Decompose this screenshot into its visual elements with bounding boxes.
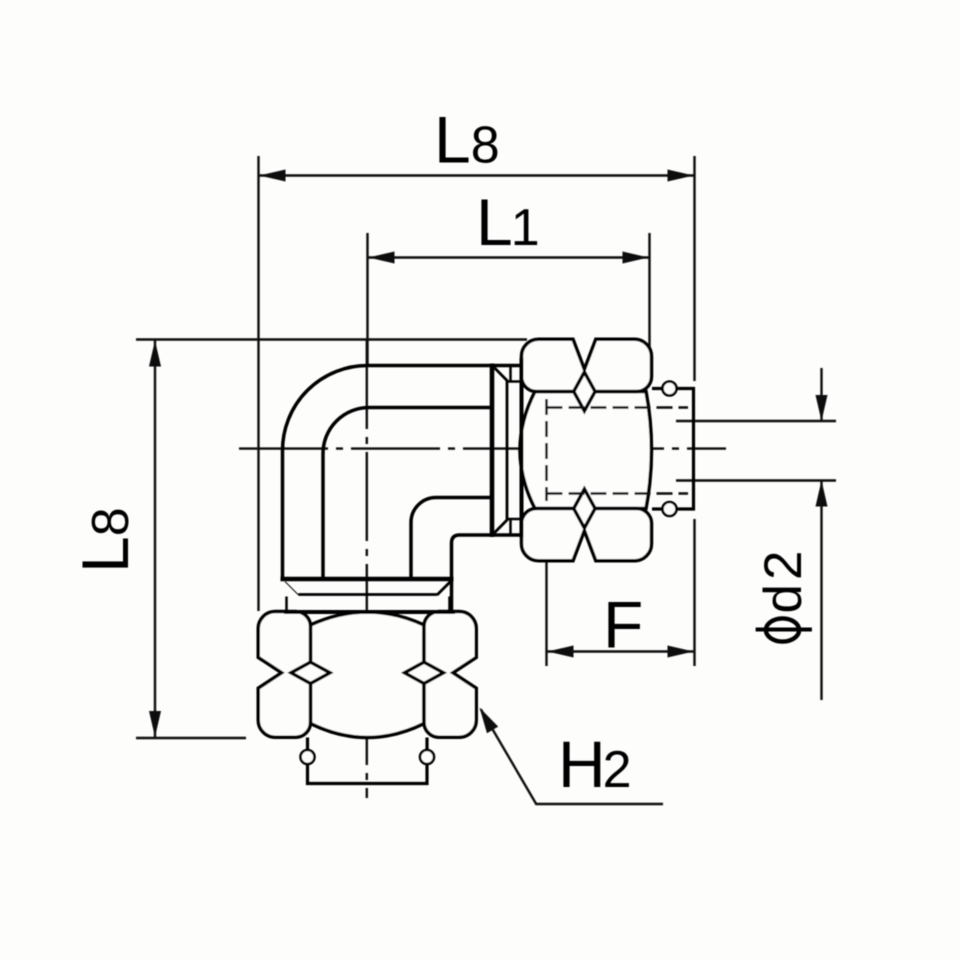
svg-text:F: F bbox=[603, 588, 643, 662]
svg-text:d2: d2 bbox=[754, 547, 813, 614]
